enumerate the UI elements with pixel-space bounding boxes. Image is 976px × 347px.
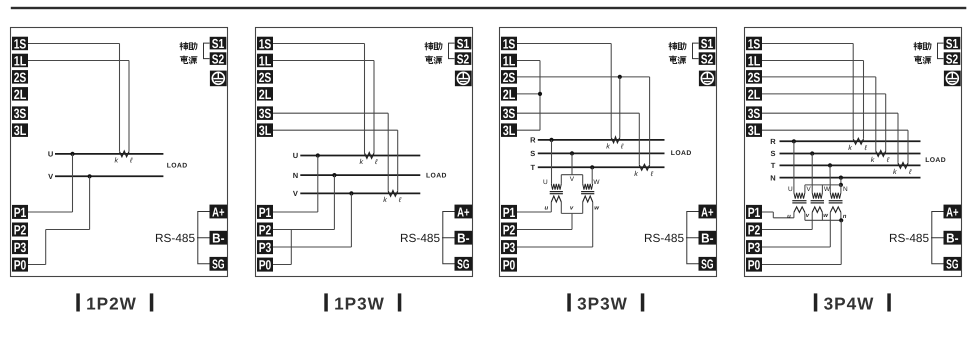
svg-text:P0: P0: [259, 258, 272, 273]
svg-text:P3: P3: [748, 240, 761, 255]
svg-text:P0: P0: [14, 258, 27, 273]
svg-text:3P3W: 3P3W: [577, 293, 628, 313]
svg-text:S2: S2: [457, 52, 469, 67]
svg-text:3S: 3S: [503, 106, 516, 121]
svg-text:1S: 1S: [14, 36, 27, 51]
svg-text:R: R: [530, 136, 536, 145]
svg-text:N: N: [293, 171, 298, 180]
svg-text:U: U: [788, 186, 793, 193]
svg-text:W: W: [593, 179, 600, 186]
svg-text:k: k: [871, 155, 875, 164]
svg-text:2L: 2L: [14, 87, 27, 102]
svg-text:1S: 1S: [259, 36, 272, 51]
svg-text:1L: 1L: [503, 53, 516, 68]
svg-text:LOAD: LOAD: [671, 150, 692, 157]
svg-text:P2: P2: [748, 222, 761, 237]
svg-text:3L: 3L: [748, 123, 761, 138]
svg-text:U: U: [543, 179, 548, 186]
svg-text:P3: P3: [503, 240, 516, 255]
svg-text:U: U: [293, 151, 298, 160]
svg-text:P2: P2: [503, 222, 516, 237]
svg-text:V: V: [293, 189, 298, 198]
svg-text:k: k: [360, 157, 364, 166]
svg-text:A+: A+: [212, 204, 225, 219]
svg-text:1P2W: 1P2W: [86, 293, 137, 313]
svg-text:k: k: [634, 169, 638, 178]
svg-text:3S: 3S: [14, 106, 27, 121]
svg-text:S1: S1: [701, 36, 713, 51]
svg-text:1L: 1L: [14, 53, 27, 68]
svg-text:S: S: [770, 149, 775, 158]
svg-text:1L: 1L: [259, 53, 272, 68]
svg-text:2L: 2L: [748, 87, 761, 102]
svg-text:A+: A+: [457, 204, 470, 219]
svg-text:S2: S2: [946, 52, 958, 67]
svg-text:N: N: [843, 186, 848, 193]
svg-text:w: w: [823, 213, 828, 219]
svg-text:1S: 1S: [748, 36, 761, 51]
svg-text:2S: 2S: [503, 70, 516, 85]
svg-text:P1: P1: [259, 205, 272, 220]
svg-text:S1: S1: [457, 36, 469, 51]
svg-text:A+: A+: [701, 204, 714, 219]
svg-text:U: U: [48, 150, 53, 159]
svg-text:LOAD: LOAD: [426, 173, 447, 180]
svg-text:A+: A+: [946, 204, 959, 219]
svg-text:LOAD: LOAD: [925, 157, 946, 164]
svg-text:T: T: [771, 161, 776, 170]
svg-text:S1: S1: [946, 36, 958, 51]
svg-text:3L: 3L: [503, 123, 516, 138]
svg-text:B-: B-: [701, 231, 713, 246]
svg-text:2S: 2S: [14, 70, 27, 85]
svg-text:P0: P0: [748, 258, 761, 273]
svg-text:1L: 1L: [748, 53, 761, 68]
svg-text:3L: 3L: [259, 123, 272, 138]
svg-text:RS-485: RS-485: [889, 231, 929, 245]
svg-text:k: k: [383, 195, 387, 204]
svg-text:3P4W: 3P4W: [824, 293, 875, 313]
svg-text:2L: 2L: [503, 87, 516, 102]
svg-text:S2: S2: [701, 52, 713, 67]
svg-text:u: u: [787, 214, 791, 220]
svg-text:SG: SG: [212, 257, 224, 272]
svg-text:RS-485: RS-485: [644, 231, 684, 245]
svg-text:V: V: [806, 186, 811, 193]
svg-text:SG: SG: [946, 257, 958, 272]
svg-text:3L: 3L: [14, 123, 27, 138]
svg-text:3S: 3S: [259, 106, 272, 121]
svg-text:P1: P1: [503, 205, 516, 220]
svg-text:RS-485: RS-485: [400, 231, 440, 245]
svg-text:k: k: [606, 142, 610, 151]
svg-text:k: k: [848, 143, 852, 152]
svg-text:2S: 2S: [748, 70, 761, 85]
svg-text:P0: P0: [503, 258, 516, 273]
svg-text:B-: B-: [946, 231, 958, 246]
svg-text:u: u: [544, 205, 548, 211]
svg-text:k: k: [115, 156, 119, 165]
svg-text:P2: P2: [259, 222, 272, 237]
svg-text:S: S: [530, 149, 535, 158]
svg-text:SG: SG: [701, 257, 713, 272]
svg-text:V: V: [48, 172, 53, 181]
svg-text:N: N: [770, 173, 775, 182]
svg-text:P2: P2: [14, 222, 27, 237]
svg-text:B-: B-: [212, 231, 224, 246]
svg-text:SG: SG: [457, 257, 469, 272]
svg-text:S2: S2: [212, 52, 224, 67]
svg-text:P3: P3: [14, 240, 27, 255]
svg-text:RS-485: RS-485: [155, 231, 195, 245]
svg-text:1P3W: 1P3W: [334, 293, 385, 313]
svg-text:3S: 3S: [748, 106, 761, 121]
svg-text:2S: 2S: [259, 70, 272, 85]
svg-text:S1: S1: [212, 36, 224, 51]
svg-text:w: w: [594, 205, 599, 211]
svg-text:B-: B-: [457, 231, 469, 246]
svg-text:2L: 2L: [259, 87, 272, 102]
svg-text:n: n: [843, 214, 847, 220]
svg-text:1S: 1S: [503, 36, 516, 51]
svg-text:W: W: [824, 186, 831, 193]
svg-text:LOAD: LOAD: [167, 163, 188, 170]
svg-text:T: T: [531, 163, 536, 172]
svg-text:R: R: [770, 137, 776, 146]
svg-text:P1: P1: [748, 205, 761, 220]
svg-text:k: k: [893, 167, 897, 176]
svg-text:V: V: [570, 176, 575, 183]
svg-text:P3: P3: [259, 240, 272, 255]
svg-text:P1: P1: [14, 205, 27, 220]
